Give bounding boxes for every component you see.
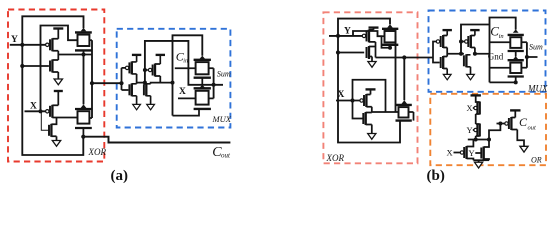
transistor M1 PMOS upper (a) bbox=[46, 38, 59, 51]
wire inverter U3 output node (b mux) bbox=[446, 48, 448, 57]
wire serial chain output to parallel rail (b or) bbox=[475, 136, 477, 140]
power VDD T-bar output (b or) bbox=[510, 110, 520, 117]
node X junction (a) bbox=[38, 109, 42, 113]
wire riser outer loop to box P7 gate (b mux) bbox=[490, 18, 516, 83]
wire Gnd input fold under P8 (b mux) bbox=[490, 68, 516, 83]
XOR block dashed box (b) bbox=[323, 12, 417, 163]
transistor M3 PMOS lower (a) bbox=[46, 105, 59, 118]
svg-text:X: X bbox=[467, 103, 473, 113]
transistor M10 NMOS Y (b xor) bbox=[367, 46, 376, 59]
svg-text:MUX: MUX bbox=[527, 84, 548, 94]
ground arrow parallel pair (b or) bbox=[475, 160, 483, 168]
wire P6 right stub down (b xor) bbox=[413, 112, 415, 121]
svg-text:Y: Y bbox=[11, 35, 18, 45]
wire X parallel gate lead (b or) bbox=[454, 152, 461, 154]
transistor M6 NMOS inverter U1 (a mux) bbox=[129, 83, 136, 96]
wire pass box right common vertical (a) bbox=[91, 40, 93, 118]
wire Cin input stub (b mux) bbox=[490, 41, 511, 43]
transistor M12 NMOS X (b xor) bbox=[353, 101, 372, 126]
ground arrow lower (a) bbox=[52, 136, 60, 146]
transistor M18 PMOS Y serial (b or) bbox=[474, 124, 480, 137]
svg-text:MUX: MUX bbox=[212, 114, 232, 124]
wire P5 input fold to bottom gate (b xor) bbox=[382, 36, 391, 48]
node select tap for pass gate (b xor) bbox=[402, 55, 406, 59]
MUX block dashed box (b) bbox=[429, 11, 546, 92]
wire P4 bottom gate return to select riser (a mux) bbox=[173, 109, 200, 116]
svg-text:in: in bbox=[183, 59, 188, 65]
wire output drain jog (b or) bbox=[517, 130, 524, 147]
node Y junction (a) bbox=[20, 43, 24, 47]
wire NMOS M2 gate line (a) bbox=[22, 65, 49, 67]
pass transistor P3 Cin (a mux) bbox=[194, 56, 214, 78]
wire Y gate lead (b or) bbox=[473, 129, 474, 131]
node select riser tap (a mux) bbox=[171, 81, 175, 85]
wire to inverter U2 PMOS bubble (a mux) bbox=[145, 69, 148, 71]
wire P7 P8 right terminals to Sum (b mux) bbox=[527, 42, 538, 67]
pass transistor P4 X (a mux) bbox=[194, 85, 214, 109]
svg-text:in: in bbox=[499, 33, 504, 40]
node bottom gate junction (a) bbox=[81, 135, 85, 139]
transistor M7 PMOS inverter U2 (a mux) bbox=[148, 64, 160, 77]
transistor M8 NMOS inverter U2 (a mux) bbox=[144, 83, 151, 96]
ground arrow Y pair (b xor) bbox=[368, 57, 376, 68]
power VDD T-bar X pair (b xor) bbox=[366, 89, 376, 94]
wire XOR output select line (a) bbox=[92, 82, 122, 84]
transistor M16 NMOS inverter U4 (b mux) bbox=[464, 54, 471, 67]
svg-text:Y: Y bbox=[467, 125, 473, 135]
wire inverter U1 output node (a mux) bbox=[136, 74, 138, 84]
svg-text:Y: Y bbox=[469, 148, 475, 158]
transistor M2 NMOS upper (a) bbox=[50, 60, 58, 73]
wire Cin input stub (a mux) bbox=[175, 67, 196, 69]
wire xor internal node to pass boxes (a) bbox=[58, 54, 92, 56]
wire Y input line (b xor) bbox=[329, 35, 362, 37]
wire second rail from X line to pass box P1 input (a) bbox=[41, 26, 78, 112]
wire left vertical to bottom rail (a) bbox=[22, 45, 83, 155]
transistor M9 PMOS Y (b xor) bbox=[362, 29, 375, 42]
wire gate node down to pass box P2 top gate (a) bbox=[83, 55, 85, 105]
node pass box gate stem junction (a) bbox=[81, 52, 85, 56]
wire select vertical feeding inverter U3 (b mux) bbox=[433, 42, 440, 63]
svg-text:(b): (b) bbox=[427, 168, 445, 184]
svg-text:X: X bbox=[447, 148, 453, 158]
transistor M5 PMOS inverter U1 (a mux) bbox=[125, 61, 136, 74]
wire node up to output gate (b or) bbox=[489, 124, 500, 140]
wire select riser wire A to box P3 gate (a mux) bbox=[173, 35, 203, 115]
svg-text:X: X bbox=[30, 101, 37, 111]
node output gate junction (b or) bbox=[498, 122, 502, 126]
node select line junction (a mux) bbox=[119, 81, 123, 85]
ground arrow X pair (b xor) bbox=[368, 125, 376, 140]
power VDD T-bar upper (a) bbox=[53, 29, 63, 39]
transistor M14 NMOS inverter U3 (b mux) bbox=[441, 56, 448, 69]
wire Y to second rail riser (b xor) bbox=[353, 31, 382, 36]
svg-text:X: X bbox=[179, 87, 186, 97]
wire P3 P4 common right terminal to Sum (a mux) bbox=[213, 68, 215, 98]
wire Y input line (a) bbox=[10, 44, 46, 46]
wire M1-M2 common drain node (a) bbox=[57, 51, 59, 60]
ground arrow upper (a) bbox=[54, 72, 62, 85]
wire M3 drain to pass box P2 input (a) bbox=[52, 117, 77, 119]
svg-text:X: X bbox=[338, 90, 345, 100]
node select-bar tap (a mux) bbox=[143, 81, 147, 85]
pass transistor P7 Cin (b mux) bbox=[508, 29, 527, 51]
wire X input line (b xor) bbox=[336, 100, 360, 102]
svg-text:OR: OR bbox=[531, 156, 542, 165]
wire output PMOS gate line (b or) bbox=[497, 123, 505, 125]
wire P7 bottom gate to P8 top gate (b mux) bbox=[515, 51, 517, 57]
wire select-bar riser and top wire B (a mux) bbox=[145, 41, 223, 85]
wire X pair output to P6 input (b xor) bbox=[372, 107, 399, 113]
transistor M19 PMOS X parallel (b or) bbox=[460, 140, 473, 161]
transistor M21 PMOS output (b or) bbox=[505, 117, 518, 130]
pass transistor P2 (a) bbox=[75, 104, 92, 136]
svg-text:Gnd: Gnd bbox=[488, 52, 504, 62]
MUX block dashed box (a) bbox=[117, 29, 231, 128]
transistor M4 NMOS lower (a) bbox=[41, 111, 57, 137]
node inverter U4 output tap (b mux) bbox=[473, 52, 477, 56]
transistor M17 PMOS X serial (b or) bbox=[474, 102, 480, 115]
svg-text:out: out bbox=[528, 125, 537, 132]
ground arrow inverter U3 (b mux) bbox=[443, 69, 451, 80]
node gate line junction (b xor) bbox=[336, 50, 340, 54]
wire X gate lead (b or) bbox=[473, 107, 474, 109]
wire select-bar to inverter U4 NMOS gate (b mux) bbox=[447, 53, 464, 55]
wire P3 bottom gate to P4 top gate (a mux) bbox=[201, 78, 203, 85]
transistor M15 PMOS inverter U4 (b mux) bbox=[465, 35, 475, 48]
svg-text:Sum: Sum bbox=[529, 43, 543, 52]
wire select down to box P6 top gate (b xor) bbox=[403, 58, 405, 101]
power VDD T-bar serial chain (b or) bbox=[471, 95, 481, 101]
power VDD T-bar Y pair (b xor) bbox=[369, 28, 379, 30]
power VDD T-bar inverter U3 (b mux) bbox=[443, 30, 452, 35]
wire top rail (b xor) bbox=[338, 19, 390, 36]
wire serial chain link (b or) bbox=[475, 114, 477, 124]
ground arrow inverter U4 (b mux) bbox=[467, 67, 475, 80]
pass transistor P5 (b xor) bbox=[382, 24, 398, 45]
transistor M13 PMOS inverter U3 (b mux) bbox=[436, 35, 447, 48]
wire Y pair output node (b xor) bbox=[375, 42, 377, 58]
transistor M11 PMOS X (b xor) bbox=[360, 94, 372, 107]
wire select-bar to inverter U2 NMOS gate (a mux) bbox=[137, 82, 144, 84]
wire inverter U2 output to select riser (a mux) bbox=[151, 76, 173, 84]
wire P5 right to P6 left vertical (b xor) bbox=[395, 36, 397, 112]
power VDD T-bar inverter U4 (b mux) bbox=[470, 30, 479, 35]
node P5 gate fold junction (b xor) bbox=[388, 46, 392, 50]
wire left vertical and bottom rail (b xor) bbox=[338, 36, 400, 143]
wire X input line (a) bbox=[25, 110, 46, 112]
wire to inverter U4 PMOS bubble (b mux) bbox=[461, 41, 464, 43]
XOR block dashed box (a) bbox=[8, 10, 104, 162]
wire X rail riser to box P6 input (b xor) bbox=[353, 80, 386, 112]
svg-text:XOR: XOR bbox=[326, 153, 345, 163]
wire parallel pair top rail (b or) bbox=[468, 139, 489, 141]
node Sum junction (b mux) bbox=[525, 55, 529, 59]
node bubble wire tap (b mux) bbox=[459, 40, 463, 44]
node bubble wire tap (a mux) bbox=[143, 68, 147, 72]
pass transistor P6 (b xor) bbox=[396, 100, 414, 120]
ground arrow inverter U2 (a mux) bbox=[147, 96, 155, 110]
wire Cout step (a) bbox=[83, 137, 230, 143]
node parallel rail tap (b or) bbox=[487, 138, 491, 142]
OR block dashed box (b) bbox=[430, 94, 546, 165]
svg-text:Sum: Sum bbox=[217, 70, 231, 79]
transistor M20 NMOS Y parallel (b or) bbox=[481, 140, 489, 161]
wire NMOS gate line (b xor) bbox=[338, 52, 364, 54]
power VDD T-bar lower (a) bbox=[54, 91, 63, 105]
node Sum junction (a mux) bbox=[212, 83, 216, 87]
wire select vertical feeding inverter U1 gates (a mux) bbox=[122, 68, 129, 90]
wire top rail node Y loop (a) bbox=[22, 16, 83, 45]
node select-bar tap (b mux) bbox=[459, 52, 463, 56]
ground arrow inverter U1 (a mux) bbox=[133, 96, 141, 110]
node P8 bottom gate junction (b mux) bbox=[514, 80, 518, 84]
node gate rail junction (a) bbox=[20, 64, 24, 68]
wire X input stub (a mux) bbox=[178, 97, 196, 99]
node serial output junction (b or) bbox=[474, 138, 478, 142]
svg-text:Y: Y bbox=[344, 27, 351, 37]
wire XOR output select line (b) bbox=[376, 57, 434, 59]
wire Y parallel gate lead (b or) bbox=[475, 152, 481, 154]
wire select-bar riser and top wire (b mux) bbox=[461, 25, 490, 54]
svg-text:(a): (a) bbox=[111, 168, 129, 184]
svg-text:out: out bbox=[221, 151, 231, 159]
ground arrow output branch (b or) bbox=[520, 146, 528, 152]
svg-text:XOR: XOR bbox=[88, 147, 107, 157]
node X junction (b xor) bbox=[350, 98, 354, 102]
power VDD T-bar inverter U2 (a mux) bbox=[156, 55, 165, 64]
wire inverter U4 output to riser (b mux) bbox=[475, 48, 490, 54]
wire parallel pair bottom rail (b or) bbox=[473, 159, 489, 161]
wire P5 bottom gate stem (b xor) bbox=[389, 45, 391, 48]
power VDD T-bar inverter U1 (a mux) bbox=[132, 55, 141, 62]
node XOR output to MUX (a) bbox=[90, 81, 94, 85]
pass transistor P1 (a) bbox=[75, 28, 92, 55]
pass transistor P8 Gnd (b mux) bbox=[508, 56, 527, 76]
node Y junction (b xor) bbox=[336, 34, 340, 38]
